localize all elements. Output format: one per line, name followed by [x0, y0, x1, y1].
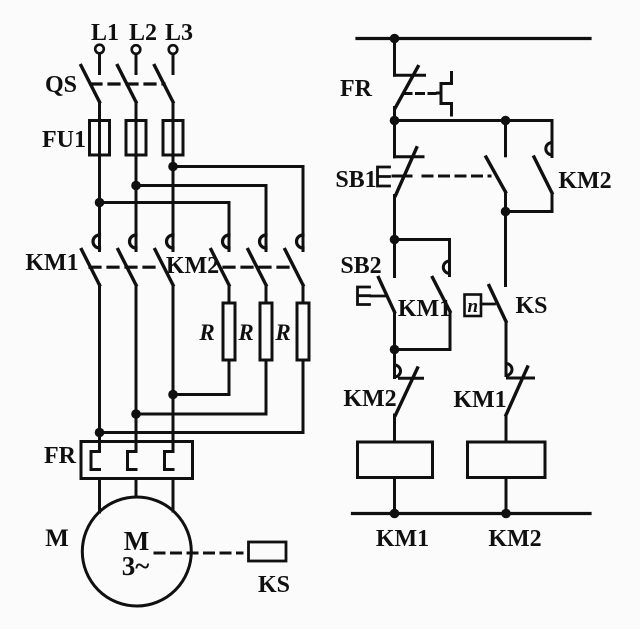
linkage dashed line KM1 poles — [90, 266, 160, 269]
contactor KM1 latch contact — [443, 261, 449, 273]
wire KM1 pole 2 down — [135, 285, 138, 452]
motor M circle — [82, 497, 191, 606]
svg-text:FR: FR — [44, 443, 77, 469]
svg-text:KM2: KM2 — [558, 168, 611, 194]
svg-text:KS: KS — [258, 572, 290, 598]
switch QS pole 3 blade — [155, 66, 174, 103]
wire coil KM1 to bus — [393, 478, 396, 514]
svg-text:KM2: KM2 — [488, 526, 541, 552]
svg-text:R: R — [274, 320, 290, 345]
terminal circle L1 — [95, 45, 104, 54]
svg-text:n: n — [468, 296, 479, 317]
node top bus — [390, 34, 400, 44]
wire coil KM2 to bus — [505, 478, 508, 514]
wire latch branch rejoin — [506, 210, 553, 213]
wire SB1 to SB2 — [393, 196, 396, 240]
wire KM2 pole 3 to resistor — [302, 285, 305, 303]
resistor R phase 2 — [260, 303, 272, 360]
terminal circle L2 — [132, 45, 141, 54]
svg-text:KM1: KM1 — [376, 526, 429, 552]
resistor R phase 3 — [297, 303, 309, 360]
thermal relay FR NC contact — [395, 74, 425, 77]
pushbutton SB1 actuator E — [378, 167, 390, 186]
wire KM1 pole 3 down — [172, 285, 175, 452]
resistor R phase 1 — [223, 303, 235, 360]
svg-text:R: R — [237, 320, 253, 345]
linkage dashed line KM2 poles — [224, 266, 296, 269]
node E — [390, 345, 400, 355]
svg-text:QS: QS — [45, 72, 77, 98]
bottom supply bus — [353, 512, 591, 515]
contactor KM1 pole 2 contact — [130, 235, 136, 248]
svg-text:FU1: FU1 — [42, 127, 86, 153]
FR heater element 1 — [91, 452, 100, 470]
dashed link motor to KS — [155, 552, 242, 555]
contactor KM2 pole 3 contact — [297, 235, 304, 248]
svg-text:KM2: KM2 — [166, 253, 219, 279]
terminal circle L3 — [169, 45, 178, 54]
node C — [501, 207, 511, 217]
node coil KM2 / bus — [501, 509, 511, 519]
fuse FU1 pole 2 — [126, 121, 146, 156]
node on L1 feeding KM2 branch — [95, 198, 105, 208]
svg-text:L1: L1 — [91, 20, 119, 46]
wire from L3 to KM2 pole 3 — [173, 167, 303, 251]
svg-text:FR: FR — [340, 76, 373, 102]
switch QS linkage dashed line — [91, 82, 164, 85]
SB2 actuator tick — [371, 295, 385, 298]
svg-text:KM1: KM1 — [398, 296, 451, 322]
KS actuator tick — [481, 303, 495, 306]
fuse FU1 pole 3 — [163, 121, 183, 156]
svg-text:KM1: KM1 — [453, 387, 506, 413]
node B (SB1 NO branch) — [501, 116, 511, 126]
coil KM2 — [468, 442, 546, 478]
node A — [390, 116, 400, 126]
wire from L2 to KM2 pole 2 — [136, 186, 266, 251]
wire bus to FR contact — [393, 39, 396, 76]
node resistor 3 / L1 — [95, 428, 105, 438]
wire FR to motor phase 1 — [98, 479, 101, 513]
speed relay KS contact — [489, 286, 506, 322]
pushbutton SB2 actuator E — [358, 287, 370, 305]
wire L2 stub — [135, 55, 138, 74]
speed relay box n — [465, 295, 482, 317]
contactor KM2 NC interlock — [393, 350, 396, 378]
svg-text:M: M — [45, 525, 69, 552]
FR heater element 3 — [165, 452, 174, 470]
wire FR contact to node A — [393, 108, 396, 121]
node resistor 2 / L2 — [131, 409, 141, 419]
wire L3 stub — [172, 55, 175, 74]
pushbutton SB1 NC contact — [393, 121, 396, 157]
wire resistor 2 to L2 wire — [136, 360, 266, 414]
wire L3 below QS — [172, 102, 175, 251]
thermal relay FR box — [81, 442, 193, 479]
contactor KM1 pole 1 contact — [93, 235, 100, 248]
FR trip dashed link — [404, 92, 435, 95]
wire from L1 to KM2 pole 1 — [100, 203, 230, 251]
svg-text:KM1: KM1 — [25, 250, 78, 276]
wire KM1 pole 1 down — [98, 285, 101, 452]
switch QS pole 1 blade — [81, 66, 100, 103]
node on L3 feeding KM2 branch — [168, 162, 178, 172]
wire L2 below QS — [135, 102, 138, 251]
wire KM1 latch rejoin — [395, 312, 451, 350]
wire node C down to KS — [504, 212, 507, 286]
wire FR to motor phase 2 — [135, 479, 138, 498]
svg-text:SB2: SB2 — [340, 253, 381, 279]
wire to KM1 latch — [395, 240, 450, 276]
svg-text:KS: KS — [515, 293, 547, 319]
node on L2 feeding KM2 branch — [131, 181, 141, 191]
svg-text:SB1: SB1 — [335, 167, 376, 193]
switch QS pole 2 blade — [118, 66, 137, 103]
svg-text:L2: L2 — [129, 20, 157, 46]
contactor KM2 latch contact — [551, 121, 554, 157]
FR heater element 2 — [128, 452, 137, 470]
wire resistor 1 to L3 wire — [173, 360, 229, 395]
node D — [390, 235, 400, 245]
wire resistor 3 to L1 wire — [100, 360, 304, 433]
pushbutton SB2 NO contact — [393, 240, 396, 277]
svg-text:3~: 3~ — [122, 551, 150, 581]
contactor KM2 pole 2 contact — [260, 235, 267, 248]
fuse FU1 pole 1 — [90, 121, 110, 156]
speed relay KS box — [249, 542, 287, 561]
top supply bus — [357, 37, 590, 40]
FR trip actuator symbol — [438, 73, 452, 116]
contactor KM2 pole 1 contact — [223, 235, 230, 248]
svg-text:R: R — [198, 320, 214, 345]
svg-text:KM2: KM2 — [343, 386, 396, 412]
wire L1 below QS — [98, 102, 101, 251]
node coil KM1 / bus — [390, 509, 400, 519]
contactor KM1 NC interlock — [506, 364, 512, 376]
node resistor 1 / L3 — [168, 390, 178, 400]
wire KM2 pole 1 to resistor — [228, 285, 231, 303]
wire KM2 pole 2 to resistor — [265, 285, 268, 303]
contactor KM1 pole 3 contact — [167, 235, 174, 248]
wire FR to motor phase 3 — [172, 479, 175, 512]
svg-text:L3: L3 — [165, 20, 193, 46]
coil KM1 — [358, 442, 433, 478]
wire node A to KM2 latch branch — [395, 119, 553, 122]
pushbutton SB1 NO contact — [504, 121, 507, 156]
SB1 linkage dashed line — [423, 175, 490, 178]
wire L1 stub — [98, 54, 101, 74]
